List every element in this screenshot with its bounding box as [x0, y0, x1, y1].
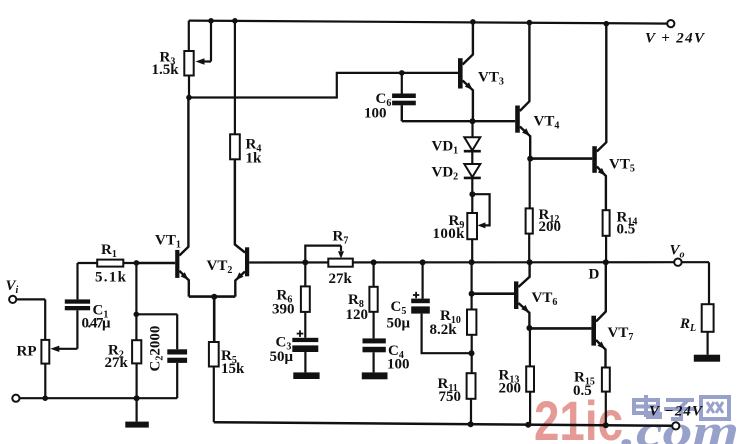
node R1 right junction	[134, 260, 140, 266]
potentiometer R7	[305, 246, 353, 267]
wire R10 bottom	[471, 335, 473, 373]
svg-text:0.5: 0.5	[617, 222, 636, 238]
svg-text:1k: 1k	[246, 151, 263, 167]
node R4 rail junction	[232, 18, 238, 24]
wire R8 top	[373, 262, 375, 286]
resistor R4	[230, 134, 240, 159]
node RP bottom junction	[42, 395, 48, 401]
node R13 rail junction	[525, 422, 531, 428]
transistor VT4	[515, 23, 530, 159]
transistor VT3	[458, 22, 473, 121]
ground C4	[362, 352, 388, 379]
wire R9 wiper bracket	[472, 194, 489, 225]
wire to R12	[529, 159, 531, 209]
wire R9 bottom to R10	[471, 262, 473, 309]
wire C1 to RP wiper	[58, 310, 77, 349]
resistor R15	[602, 368, 610, 392]
resistor R8	[369, 287, 377, 312]
wire main output line	[249, 261, 674, 263]
wire base line to VT3	[189, 73, 458, 98]
node R9 line junction	[469, 259, 475, 265]
wire VD2 to R9	[471, 178, 473, 213]
resistor RL	[702, 304, 714, 332]
potentiometer RP	[41, 340, 49, 364]
wire R14 bottom	[605, 236, 607, 262]
resistor R1	[78, 260, 137, 267]
wire VD1 to VD2	[471, 151, 473, 164]
svg-text:200: 200	[499, 381, 522, 397]
wire C6 top	[401, 73, 403, 94]
wire R3 wiper to rail	[203, 21, 211, 62]
svg-text:100: 100	[387, 357, 410, 373]
svg-text:0.5: 0.5	[573, 383, 592, 399]
svg-text:D: D	[589, 267, 600, 283]
svg-text:200: 200	[539, 219, 562, 235]
diode VD1	[464, 137, 481, 151]
wire R6 to C3	[304, 312, 306, 338]
svg-text:50μ: 50μ	[270, 349, 294, 365]
wire R13 bottom	[529, 392, 531, 425]
wire to R13	[529, 328, 531, 366]
node ground junction	[134, 395, 140, 401]
watermark .com	[621, 405, 737, 444]
wire Vo to RL	[682, 262, 709, 304]
wire R5 bottom	[213, 367, 215, 423]
ground input	[125, 398, 149, 427]
node R10 top junction	[469, 291, 475, 297]
svg-text:5.1k: 5.1k	[95, 270, 127, 286]
wire R9 bottom	[471, 239, 473, 262]
resistor R13	[526, 366, 534, 391]
capacitor C3	[292, 330, 318, 352]
resistor R14	[603, 210, 610, 236]
node R8 junction	[371, 259, 377, 265]
terminal V-24V	[672, 422, 679, 429]
potentiometer R9	[467, 213, 477, 239]
wire C5 top	[422, 262, 424, 298]
svg-text:750: 750	[439, 389, 462, 405]
svg-text:C22000: C22000	[148, 326, 166, 372]
transistor VT2	[235, 159, 249, 296]
wire bottom supply rail	[214, 422, 672, 426]
node emitter junction	[211, 294, 217, 300]
svg-text:1.5k: 1.5k	[152, 62, 180, 78]
svg-text:100k: 100k	[433, 226, 466, 242]
wire top supply rail	[189, 21, 670, 24]
wire VT4 emitter to VT5 base	[530, 157, 592, 160]
node VT6 emitter junction	[526, 325, 532, 331]
wire R3 bottom	[188, 76, 190, 98]
watermark dianziwang characters	[634, 395, 729, 419]
wire R11 bottom	[470, 399, 472, 425]
node VT4 emitter junction	[527, 156, 533, 162]
terminal Vi	[9, 296, 16, 303]
node VT5 collector rail	[604, 21, 610, 27]
svg-text:27k: 27k	[329, 271, 353, 287]
node VT3 collector rail	[470, 19, 476, 25]
svg-text:390: 390	[272, 302, 295, 318]
resistor R10	[467, 310, 476, 335]
transistor VT1	[175, 98, 189, 297]
wire Vi to RP	[16, 299, 45, 340]
wire VT6 emitter to VT7 base	[529, 327, 591, 330]
wire C6 bottom and emitter line to VT4	[402, 105, 515, 121]
wire R2 bottom	[136, 363, 138, 398]
node VT3 emitter junction	[470, 118, 476, 124]
capacitor C5	[411, 292, 430, 314]
resistor R5	[209, 342, 219, 367]
wire to R5	[213, 297, 216, 342]
transistor VT7	[591, 262, 605, 367]
node VT4 collector rail	[527, 20, 533, 26]
wire emitters join	[189, 295, 236, 298]
resistor R6	[301, 286, 310, 312]
resistor R2	[132, 340, 141, 363]
node D	[603, 259, 609, 265]
wire R6 top	[304, 262, 306, 286]
wire R15 bottom	[605, 392, 607, 426]
capacitor C2	[167, 349, 187, 363]
node C2 branch junction	[134, 312, 140, 318]
watermark 21ic	[534, 389, 623, 444]
terminal V+24V	[667, 20, 674, 27]
svg-text:V + 24V: V + 24V	[645, 31, 706, 47]
svg-text:15k: 15k	[221, 361, 245, 377]
wire VT6 base	[472, 292, 514, 295]
ground RL	[694, 332, 720, 362]
capacitor C6	[392, 94, 416, 106]
node C5 junction	[420, 259, 426, 265]
node R9 top junction	[469, 191, 475, 197]
svg-text:100: 100	[364, 106, 387, 122]
terminal input lower	[12, 395, 19, 402]
svg-text:V −24V: V −24V	[649, 404, 704, 420]
node C6 top junction	[399, 70, 405, 76]
resistor R12	[526, 208, 533, 233]
wire VT1 base	[136, 262, 175, 264]
wire R1 to C1	[76, 263, 78, 299]
node R11 rail junction	[468, 421, 474, 427]
node R15 rail junction	[603, 422, 609, 428]
node R3 wiper rail junction	[208, 18, 214, 24]
diode VD2	[464, 164, 481, 178]
svg-text:8.2k: 8.2k	[430, 322, 458, 338]
wire R4 top	[234, 21, 236, 135]
wire R4 bottom to VT2 collector	[234, 159, 236, 245]
svg-text:120: 120	[346, 307, 369, 323]
potentiometer R3	[184, 51, 193, 76]
node R10 bottom junction	[469, 350, 475, 356]
capacitor C4	[363, 338, 386, 352]
node R3 bottom junction	[186, 95, 192, 101]
wire R3 top	[188, 21, 190, 51]
wire C5 bottom to R10 bottom	[422, 314, 472, 354]
wire lower input line	[20, 397, 178, 399]
wire VD1 top	[471, 121, 473, 137]
svg-text:50μ: 50μ	[387, 316, 411, 332]
ground C3	[293, 352, 319, 379]
resistor R11	[467, 373, 476, 399]
transistor VT5	[592, 24, 606, 211]
node R12 line junction	[527, 259, 533, 265]
transistor VT6	[514, 262, 530, 328]
wire C2 top branch	[136, 314, 177, 349]
wire RP bottom	[44, 364, 46, 399]
svg-text:0.47μ: 0.47μ	[82, 316, 111, 332]
wire R2 branch	[135, 263, 137, 340]
wire R12 bottom	[528, 234, 530, 263]
capacitor C1	[65, 299, 90, 310]
wire C2 bottom	[176, 363, 178, 398]
svg-text:RP: RP	[17, 344, 37, 360]
terminal Vo	[674, 259, 681, 266]
node R6 junction	[302, 259, 308, 265]
svg-text:27k: 27k	[105, 355, 129, 371]
wire R8 to C4	[373, 312, 375, 339]
